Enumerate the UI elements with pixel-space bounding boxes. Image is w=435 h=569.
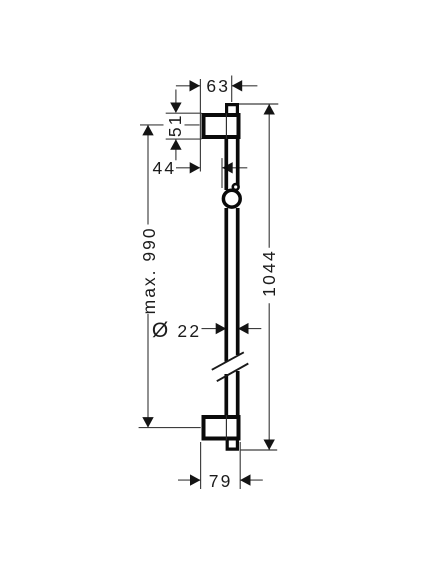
svg-text:44: 44 bbox=[152, 158, 176, 178]
svg-text:63: 63 bbox=[206, 76, 230, 96]
svg-text:Ø 22: Ø 22 bbox=[152, 319, 201, 342]
svg-text:1044: 1044 bbox=[259, 249, 279, 297]
svg-text:max. 990: max. 990 bbox=[139, 226, 159, 314]
svg-text:79: 79 bbox=[209, 471, 233, 491]
svg-text:51: 51 bbox=[165, 113, 185, 137]
